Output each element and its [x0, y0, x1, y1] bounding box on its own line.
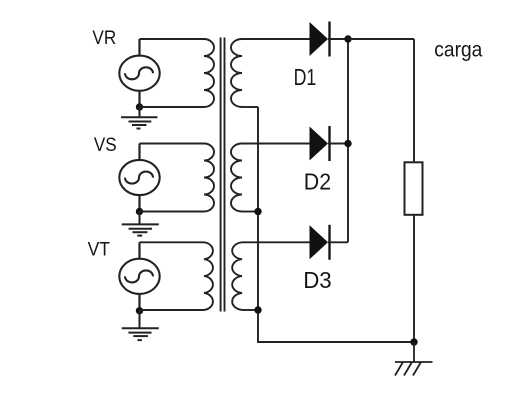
- wire VT primary bottom lead: [140, 309, 205, 311]
- wire VR source bottom stem: [138, 91, 140, 107]
- wire secondary T2 anode lead to D2: [242, 143, 310, 145]
- node neutral T3 junction: [254, 306, 261, 313]
- svg-text:D1: D1: [294, 64, 317, 90]
- transformer T2 secondary winding: [231, 144, 242, 212]
- transformer T1 primary winding: [204, 39, 214, 107]
- wire VS primary bottom lead: [140, 211, 205, 213]
- wire VS source top stem: [138, 144, 140, 160]
- diode D3: [310, 225, 349, 260]
- wire secondary T1 bottom lead: [242, 106, 258, 108]
- wire secondary T3 bottom lead: [242, 309, 258, 311]
- wire cathode bus: [347, 39, 349, 242]
- transformer T3 secondary winding: [232, 242, 242, 310]
- node D1 cathode junction: [344, 35, 351, 42]
- wire VR source top stem: [138, 39, 140, 56]
- wire secondary T1 anode lead to D1: [242, 38, 310, 40]
- ground VS: [122, 212, 159, 236]
- node VT bottom junction: [136, 307, 143, 314]
- svg-text:carga: carga: [434, 38, 482, 61]
- ac source VR: [119, 56, 159, 91]
- node VR bottom junction: [136, 103, 143, 110]
- wire VT source bottom stem: [138, 294, 140, 310]
- node ground junction: [410, 338, 417, 345]
- wire VT source top stem: [138, 242, 140, 258]
- ground VR: [121, 107, 158, 129]
- diode D1: [310, 22, 349, 57]
- ground chassis: [395, 342, 433, 376]
- resistor load carga: [405, 162, 423, 215]
- wire VR primary bottom lead: [140, 106, 205, 108]
- wire secondary T2 bottom lead: [242, 211, 258, 213]
- svg-text:VT: VT: [88, 240, 111, 261]
- ac source VT: [119, 259, 159, 294]
- transformer core lines: [221, 38, 225, 312]
- wire secondary T3 anode lead to D3: [242, 241, 310, 243]
- wire load rail lower: [413, 215, 415, 342]
- ground VT: [122, 311, 159, 340]
- wire load rail upper: [413, 39, 415, 162]
- svg-text:VR: VR: [92, 28, 116, 49]
- wire VS source bottom stem: [138, 195, 140, 211]
- wire VR primary top lead: [140, 38, 205, 40]
- transformer T3 primary winding: [204, 242, 213, 310]
- ac source VS: [119, 160, 159, 195]
- wire D1 output to load rail: [348, 38, 414, 40]
- svg-text:D3: D3: [303, 267, 332, 293]
- node VS bottom junction: [136, 208, 143, 215]
- svg-text:D2: D2: [304, 168, 331, 194]
- node D2 cathode junction: [344, 140, 351, 147]
- wire VT primary top lead: [140, 241, 205, 243]
- wire VS primary top lead: [140, 143, 205, 145]
- wire neutral bus and bottom rail: [258, 107, 414, 342]
- transformer T2 primary winding: [204, 144, 214, 212]
- diode D2: [310, 126, 349, 161]
- svg-text:VS: VS: [94, 135, 117, 156]
- transformer T1 secondary winding: [231, 39, 242, 107]
- node neutral T2 junction: [254, 208, 261, 215]
